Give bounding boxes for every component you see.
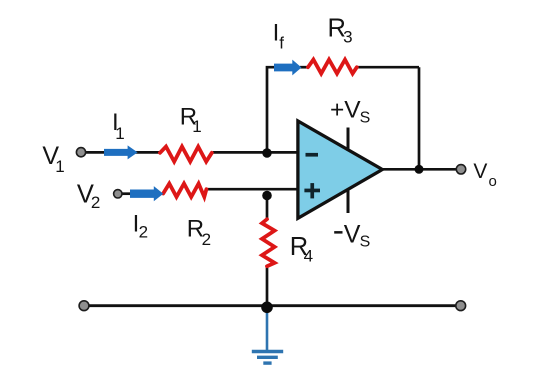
svg-text:V: V xyxy=(344,221,361,249)
svg-text:V: V xyxy=(473,160,487,183)
svg-text:1: 1 xyxy=(55,157,64,176)
svg-text:o: o xyxy=(489,173,497,190)
svg-text:1: 1 xyxy=(115,124,124,143)
svg-text:S: S xyxy=(360,233,371,250)
svg-text:2: 2 xyxy=(139,223,148,242)
svg-text:4: 4 xyxy=(304,246,313,265)
svg-text:2: 2 xyxy=(91,193,100,212)
svg-text:+V: +V xyxy=(330,97,361,124)
svg-text:I: I xyxy=(273,20,280,47)
svg-text:3: 3 xyxy=(343,28,352,47)
svg-text:1: 1 xyxy=(192,117,201,136)
svg-text:S: S xyxy=(360,110,371,127)
svg-text:2: 2 xyxy=(202,230,211,249)
svg-text:f: f xyxy=(279,33,284,52)
